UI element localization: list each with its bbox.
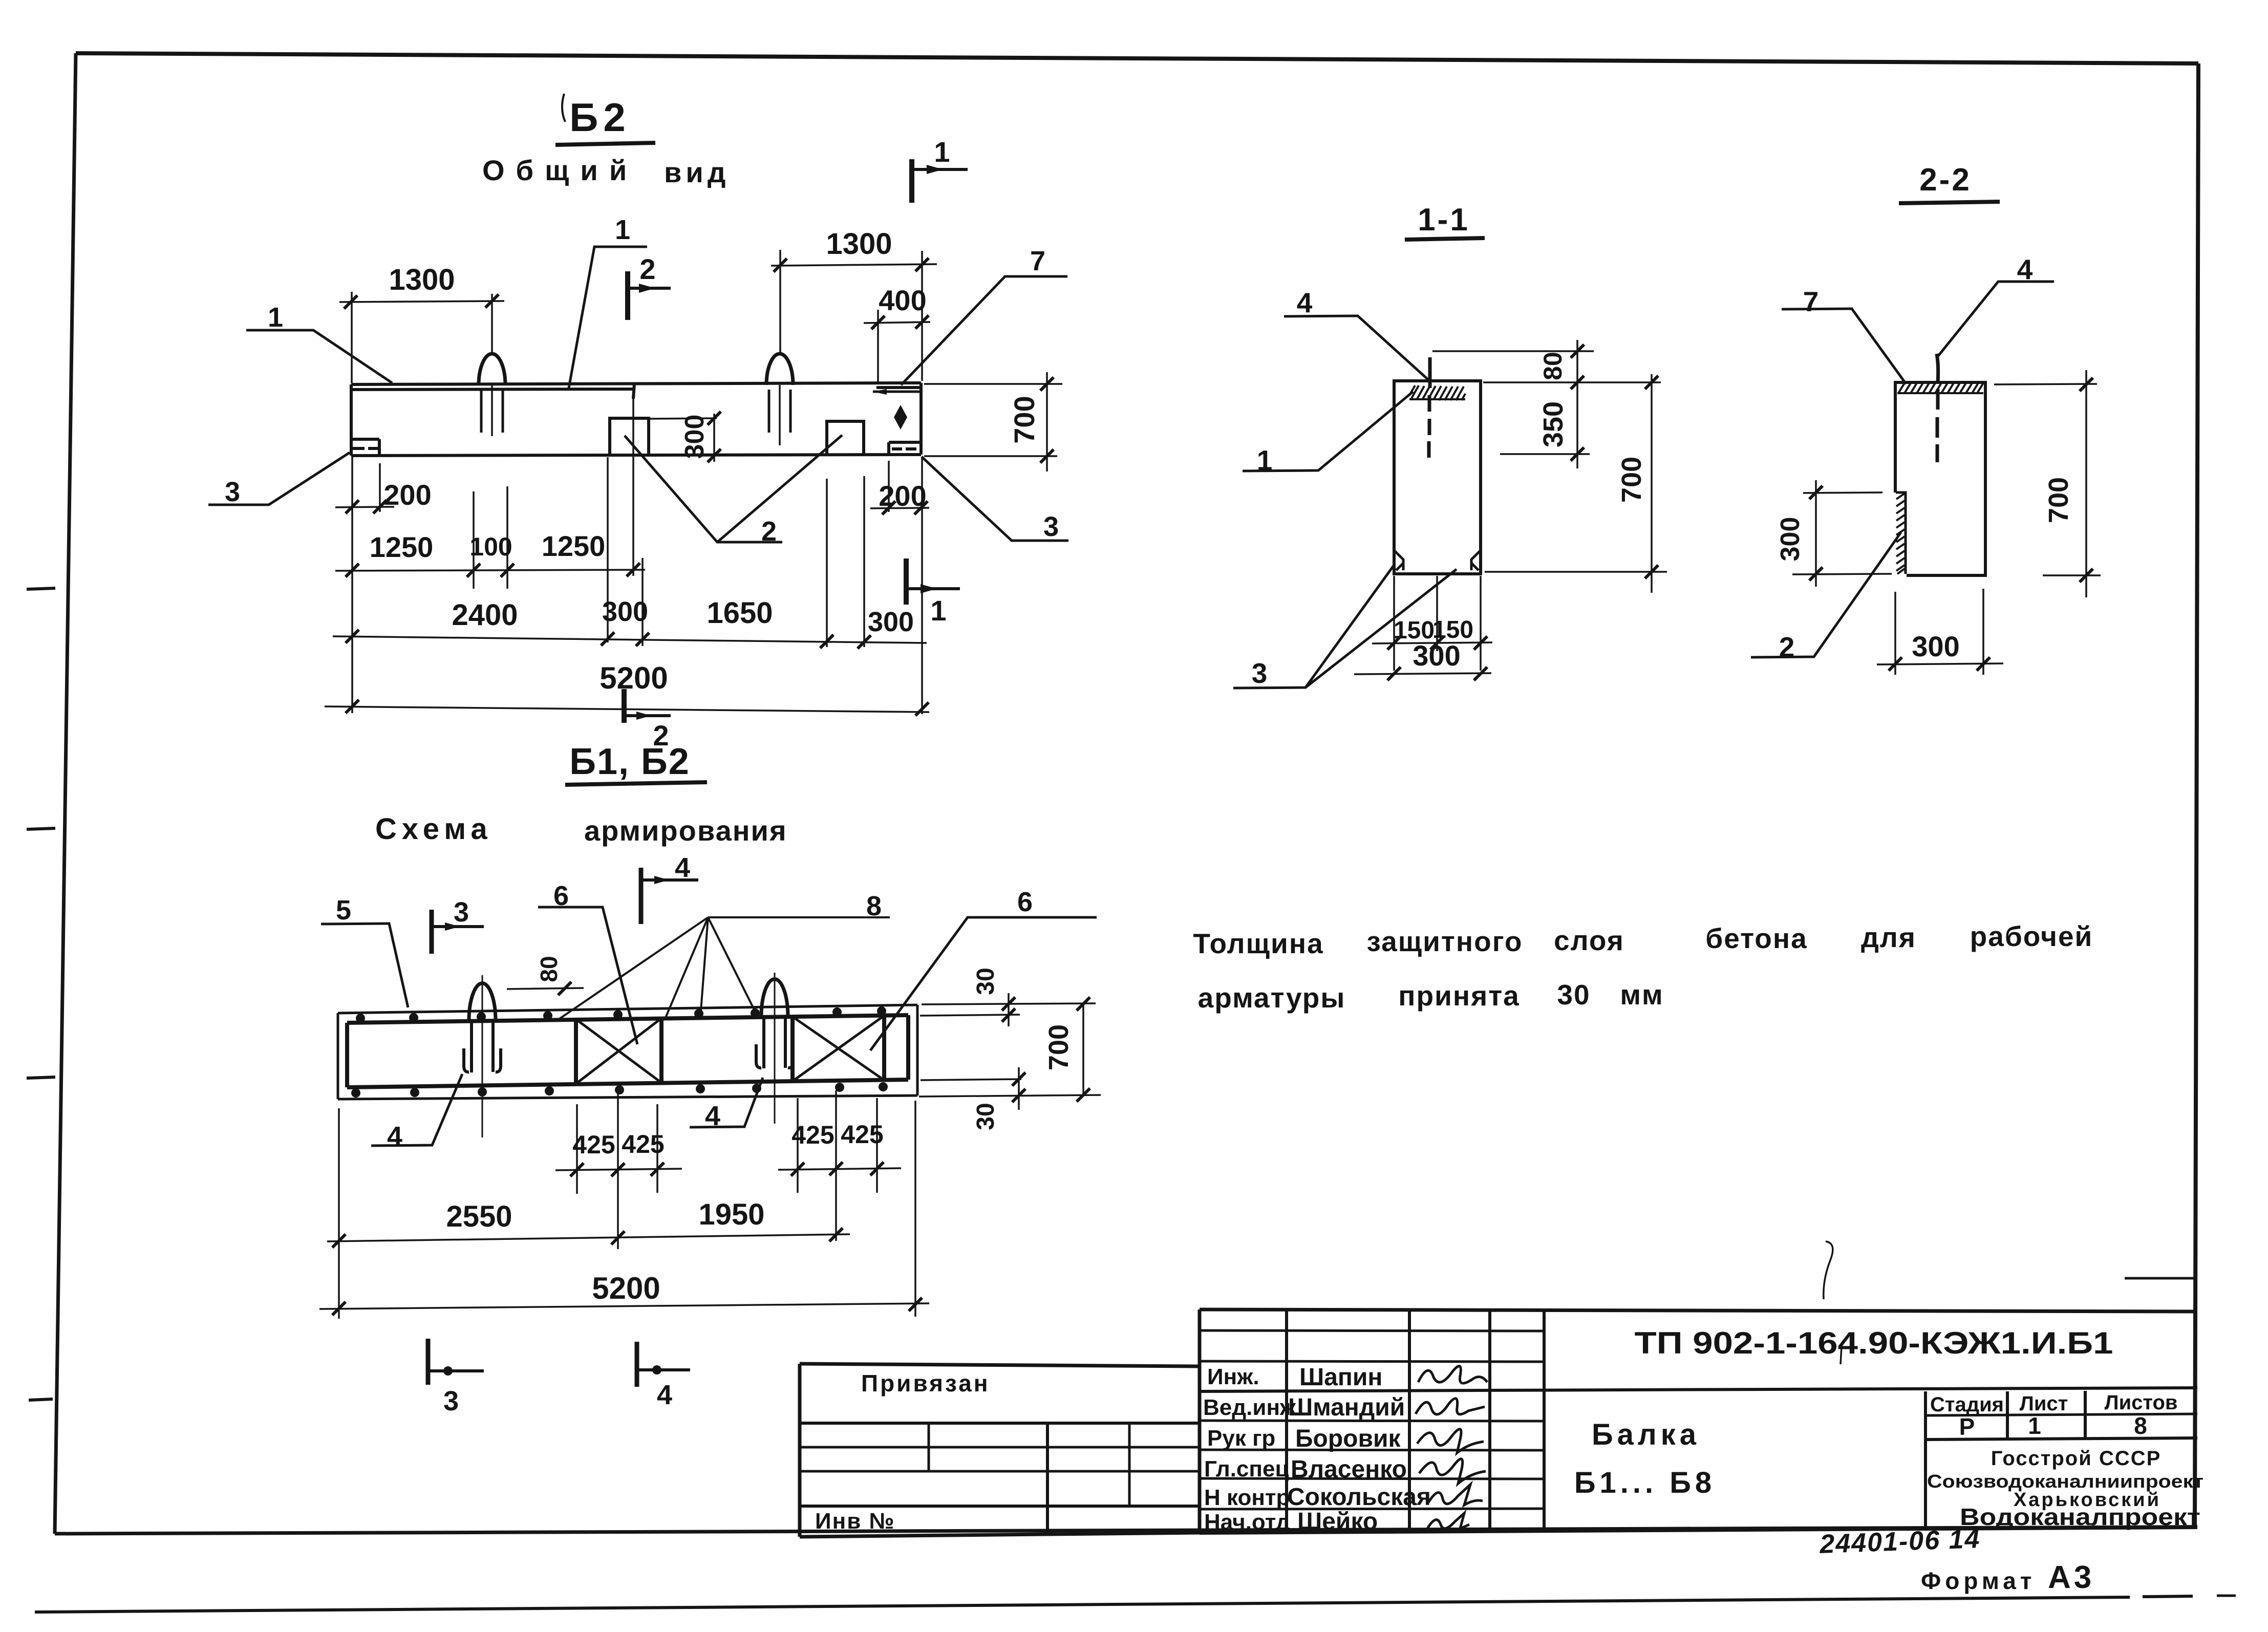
spacer frame right (X-brace) <box>793 1016 884 1081</box>
dim 300 (bottom, section 2-2) <box>1877 589 2003 675</box>
svg-text:1: 1 <box>930 594 946 627</box>
svg-text:4: 4 <box>657 1380 672 1410</box>
svg-text:80: 80 <box>536 956 562 982</box>
top plate line (element 1) <box>352 389 634 390</box>
svg-text:1: 1 <box>268 302 283 333</box>
svg-text:3: 3 <box>443 1386 459 1416</box>
svg-text:мм: мм <box>1620 979 1663 1011</box>
fold mark 3 <box>27 1077 55 1078</box>
svg-text:Лист: Лист <box>2020 1392 2068 1415</box>
dim chain 1250 100 1250 <box>335 388 645 589</box>
svg-text:Госстрой СССР: Госстрой СССР <box>1991 1447 2162 1470</box>
svg-text:1950: 1950 <box>698 1198 764 1231</box>
staff role labels <box>1203 1364 1296 1535</box>
callout 1 (middle) <box>569 214 647 388</box>
svg-text:Б1... Б8: Б1... Б8 <box>1574 1466 1716 1499</box>
svg-text:425: 425 <box>841 1120 883 1149</box>
keyway left (element 2) <box>610 418 649 455</box>
svg-text:3: 3 <box>225 477 240 507</box>
staff table horizontals <box>1200 1330 1544 1509</box>
fold mark 2 <box>27 828 55 829</box>
svg-text:1650: 1650 <box>707 596 773 630</box>
steel plate right (element 7) <box>872 388 920 395</box>
svg-text:80: 80 <box>1538 352 1567 380</box>
support notch left (element 3) <box>351 439 379 455</box>
callout 2 (section 2-2) <box>1751 532 1901 663</box>
svg-text:рабочей: рабочей <box>1970 920 2093 952</box>
svg-text:700: 700 <box>2043 477 2074 523</box>
svg-text:4: 4 <box>387 1121 402 1152</box>
dim 1300 (right) <box>771 227 937 381</box>
callout 1 (section 1-1) <box>1243 392 1413 476</box>
svg-text:Гл.спец: Гл.спец <box>1204 1456 1289 1481</box>
stray tick left of title <box>562 94 565 122</box>
callout 2 with two leaders <box>625 435 842 547</box>
callout 3 (left) <box>208 453 350 507</box>
svg-text:30: 30 <box>972 1103 999 1130</box>
dim 1300 (left) <box>339 263 504 383</box>
dim 80 (scheme) <box>507 956 584 995</box>
dim 425 425 (left pair) <box>555 1091 682 1249</box>
svg-text:1: 1 <box>2028 1412 2041 1439</box>
dim 30 (top cover) <box>920 968 1096 1026</box>
TP cell bottom line <box>1200 1388 2197 1391</box>
dim 700 (section 1-1) <box>1485 374 1667 593</box>
svg-text:арматуры: арматуры <box>1198 982 1346 1014</box>
signatures (handwritten squiggles) <box>1416 1366 1487 1529</box>
svg-text:700: 700 <box>1043 1024 1074 1070</box>
stirrup dots bottom row <box>351 1082 888 1098</box>
svg-text:для: для <box>1861 921 1916 953</box>
svg-text:бетона: бетона <box>1705 922 1807 954</box>
svg-text:Боровик: Боровик <box>1295 1425 1401 1452</box>
svg-text:7: 7 <box>1803 286 1819 317</box>
dim 2550 / 1950 <box>327 1198 850 1248</box>
dim 200 (right) <box>870 461 929 514</box>
callout 7 <box>901 246 1067 385</box>
anchor bars 4 at left loop (J-hooks) <box>464 1048 501 1072</box>
staff table verticals <box>1287 1309 1544 1533</box>
bottom corner armor right <box>1471 550 1481 570</box>
beam outline right <box>919 383 923 455</box>
svg-text:2-2: 2-2 <box>1919 162 1972 198</box>
dim 400 <box>864 284 930 382</box>
svg-text:Балка: Балка <box>1592 1418 1700 1451</box>
svg-text:425: 425 <box>572 1130 615 1159</box>
callout 3 (section 1-1, two leaders) <box>1233 566 1457 689</box>
callout 5 <box>321 895 408 1007</box>
beam outline left <box>350 384 353 456</box>
svg-text:3: 3 <box>1043 511 1059 542</box>
svg-text:300: 300 <box>1775 517 1805 562</box>
organization block text <box>1927 1447 2203 1530</box>
svg-text:Толщина: Толщина <box>1193 928 1323 959</box>
svg-text:4: 4 <box>1297 287 1313 318</box>
svg-text:Схема: Схема <box>375 812 493 846</box>
dim 700 (right, section 2-2) <box>1994 370 2101 597</box>
svg-text:Б2: Б2 <box>569 95 630 140</box>
svg-text:700: 700 <box>1616 457 1647 503</box>
svg-text:защитного: защитного <box>1367 926 1523 957</box>
svg-text:Б1, Б2: Б1, Б2 <box>569 741 690 782</box>
svg-text:Привязан: Привязан <box>861 1370 990 1397</box>
reinforcement cage (thick) <box>347 1015 908 1087</box>
diamond strength mark <box>894 405 907 430</box>
svg-text:Шмандий: Шмандий <box>1288 1394 1405 1421</box>
svg-text:200: 200 <box>879 480 926 512</box>
hatched bearing plate strip <box>1409 385 1465 400</box>
svg-text:300: 300 <box>680 415 710 459</box>
title 2-2 underline <box>1899 202 2000 203</box>
dim 80 (section 1-1) <box>1432 340 1594 468</box>
svg-text:принята: принята <box>1398 980 1520 1012</box>
note line 1 <box>1193 920 2093 959</box>
stadia headers <box>1930 1391 2178 1416</box>
svg-text:2: 2 <box>639 253 655 285</box>
section mark 1 (bottom) <box>906 559 960 627</box>
section 1-1 body <box>1394 381 1481 574</box>
dim 150 150 (section 1-1) <box>1372 576 1492 671</box>
svg-text:Шейко: Шейко <box>1297 1508 1378 1535</box>
dim 300 (section 1-1) <box>1354 639 1491 680</box>
svg-text:5: 5 <box>336 895 351 926</box>
title block outer lines <box>1200 1309 2197 1533</box>
section mark 2 (top) <box>628 253 671 320</box>
svg-text:300: 300 <box>868 607 914 637</box>
svg-text:Листов: Листов <box>2105 1391 2178 1414</box>
dim 700 (right of view) <box>924 372 1062 471</box>
lifting loop left (scheme) <box>469 975 496 1137</box>
svg-text:425: 425 <box>791 1121 834 1149</box>
svg-text:Водоканалпроект: Водоканалпроект <box>1960 1504 2200 1530</box>
svg-text:3: 3 <box>454 897 469 928</box>
stray pen squiggle <box>1824 1241 1833 1299</box>
paper bottom edge line <box>35 1597 2130 1612</box>
dim chain 2400 300 1650 300 <box>333 457 927 649</box>
svg-text:1300: 1300 <box>389 263 455 296</box>
svg-text:Нач.отд: Нач.отд <box>1204 1510 1290 1535</box>
anchor bar 4 (dashed) <box>1429 357 1430 458</box>
spacer frame left (X-brace) <box>576 1018 661 1084</box>
svg-text:Инв №: Инв № <box>815 1509 895 1534</box>
attachment block (Privyazan) <box>800 1364 1200 1537</box>
svg-text:3: 3 <box>1252 657 1268 689</box>
small line above title block right corner <box>2125 1277 2197 1280</box>
svg-text:1: 1 <box>934 136 950 168</box>
section mark 2 (bottom) <box>624 689 671 751</box>
stirrup dots top row <box>356 1006 886 1023</box>
staff names <box>1287 1364 1431 1535</box>
svg-text:Формат: Формат <box>1921 1567 2036 1594</box>
callout 1 (left) <box>246 302 392 383</box>
fold mark 1 <box>27 588 55 589</box>
dim 5200 overall <box>325 457 929 716</box>
callout 4 (section 1-1) <box>1284 287 1428 380</box>
svg-text:Власенко: Власенко <box>1291 1456 1407 1483</box>
svg-text:6: 6 <box>1017 887 1033 917</box>
svg-text:4: 4 <box>675 852 690 883</box>
svg-text:24401-06 14: 24401-06 14 <box>1818 1524 1981 1559</box>
svg-text:2400: 2400 <box>452 598 518 632</box>
callout 4 (bottom right) <box>690 1078 763 1131</box>
dim 700 (scheme right) <box>1043 997 1090 1102</box>
embedded plate element 2 (hatched strip) <box>1896 492 1906 574</box>
callout 8 with fan leaders <box>558 891 890 1020</box>
svg-text:700: 700 <box>1008 396 1040 443</box>
bottom corner armor left <box>1394 550 1403 570</box>
section mark 3 (bottom of scheme) <box>428 1339 484 1416</box>
svg-text:8: 8 <box>2134 1412 2147 1439</box>
svg-text:Союзводоканалниипроект: Союзводоканалниипроект <box>1927 1471 2203 1492</box>
plate gap edge <box>633 383 634 399</box>
svg-text:ТП 902-1-164.90-КЭЖ1.И.Б1: ТП 902-1-164.90-КЭЖ1.И.Б1 <box>1635 1326 2113 1360</box>
svg-text:Стадия: Стадия <box>1930 1393 2004 1416</box>
svg-text:2550: 2550 <box>446 1200 512 1233</box>
svg-text:Н контр: Н контр <box>1204 1485 1290 1510</box>
fold mark 4 <box>29 1399 53 1400</box>
svg-text:вид: вид <box>664 156 730 188</box>
section mark 3 (top of scheme) <box>432 897 484 954</box>
lifting loop right <box>766 354 793 445</box>
section mark 4 (top of scheme) <box>641 852 698 924</box>
title B2 underline <box>555 143 655 145</box>
callout 6 (left) <box>538 881 637 1044</box>
lifting loop right (scheme) <box>761 973 788 1124</box>
lifting loop left <box>479 354 505 436</box>
callout 6 (right) <box>870 887 1097 1050</box>
dim 300 (keyway depth) <box>650 412 721 462</box>
beam outline bottom <box>351 455 921 456</box>
svg-text:5200: 5200 <box>600 661 668 695</box>
svg-text:300: 300 <box>1912 630 1959 662</box>
svg-text:А3: А3 <box>2048 1560 2094 1595</box>
callout 3 (right) <box>922 457 1068 542</box>
beam outline top <box>351 383 921 384</box>
support notch right (element 3) <box>889 442 921 455</box>
anchor bar 4 (dashed, section 2-2) <box>1937 354 1938 462</box>
anchor bars 4 at right loop (J-hooks) <box>756 1044 793 1068</box>
svg-text:30: 30 <box>1557 979 1590 1011</box>
svg-text:1250: 1250 <box>542 530 606 562</box>
section 2-2 body <box>1895 382 1985 575</box>
dim 5200 (scheme) <box>319 1101 929 1319</box>
callout 4 (bottom left) <box>371 1074 462 1152</box>
svg-text:1-1: 1-1 <box>1418 202 1470 238</box>
callout 7 (section 2-2) <box>1782 286 1906 384</box>
svg-text:1300: 1300 <box>826 227 892 261</box>
section mark 4 (bottom of scheme) <box>637 1342 690 1410</box>
svg-text:300: 300 <box>602 596 648 627</box>
svg-text:Вед.инж: Вед.инж <box>1203 1395 1296 1420</box>
svg-text:Р: Р <box>1959 1413 1975 1440</box>
svg-text:Шапин: Шапин <box>1299 1364 1382 1391</box>
top plate element 7 (hatched) <box>1897 381 1983 393</box>
title 1-1 underline <box>1405 238 1485 240</box>
svg-text:слоя: слоя <box>1554 925 1624 956</box>
section mark 1 (top) <box>912 136 968 203</box>
dim 200 (left) <box>335 463 432 513</box>
title underline <box>565 782 707 785</box>
dim 300 (left, section 2-2) <box>1775 480 1892 587</box>
svg-text:200: 200 <box>383 479 431 511</box>
svg-text:Инж.: Инж. <box>1207 1364 1259 1389</box>
stadia list table <box>1925 1391 2197 1527</box>
dim 30 (bottom cover) <box>919 1067 1101 1130</box>
note line 2 <box>1198 979 1664 1014</box>
svg-text:425: 425 <box>622 1130 664 1158</box>
svg-text:1: 1 <box>615 214 630 245</box>
keyway right (element 2) <box>827 421 864 455</box>
dim 425 425 (right pair) <box>778 1090 901 1241</box>
svg-text:100: 100 <box>469 532 512 561</box>
dim 350 (section 1-1) <box>1483 376 1661 461</box>
svg-text:Рук гр: Рук гр <box>1207 1426 1275 1451</box>
svg-text:Общий: Общий <box>482 154 638 186</box>
svg-text:7: 7 <box>1030 246 1045 276</box>
svg-text:Сокольская: Сокольская <box>1287 1484 1431 1511</box>
svg-text:1250: 1250 <box>370 531 434 563</box>
beam concrete outline (scheme) <box>338 1005 917 1099</box>
svg-text:300: 300 <box>1413 639 1460 672</box>
svg-text:армирования: армирования <box>584 814 787 847</box>
svg-text:5200: 5200 <box>592 1271 660 1305</box>
svg-text:400: 400 <box>879 284 926 316</box>
svg-text:350: 350 <box>1538 401 1569 447</box>
callout 4 (section 2-2) <box>1938 253 2054 356</box>
svg-text:30: 30 <box>972 968 999 995</box>
stadia values <box>1959 1412 2147 1440</box>
